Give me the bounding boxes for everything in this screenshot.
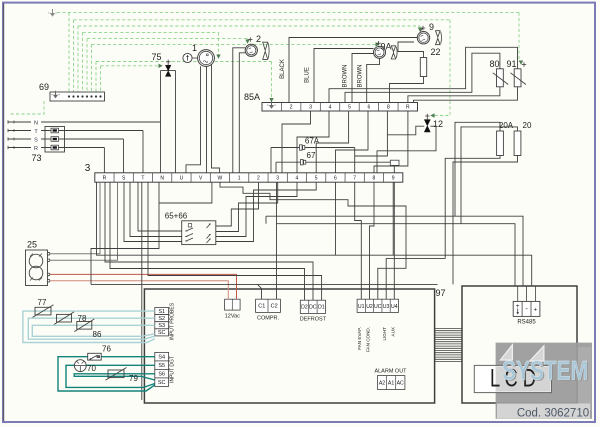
pressure switch 70 — [74, 360, 86, 372]
wire S down to strip 3 — [123, 139, 125, 173]
svg-text:RS485: RS485 — [517, 320, 536, 326]
svg-text:BLUE: BLUE — [305, 67, 311, 83]
wire 91 bottom to strip 85A cell R — [414, 87, 518, 103]
svg-text:8: 8 — [387, 105, 390, 111]
green ground bus horizontal to motor 1 — [83, 31, 219, 33]
wire 20A bottom — [445, 156, 500, 259]
wire valve 12 right to strip 3 cell 8 — [377, 126, 436, 173]
bus wire to display box upper — [266, 216, 523, 286]
wire 80 bottom to strip 85A cell R — [408, 87, 500, 103]
motor 1 thermal protector — [183, 53, 192, 62]
wire RS485 shield to box edge — [534, 286, 536, 301]
svg-text:2: 2 — [256, 34, 261, 44]
svg-text:FAN EVAP.: FAN EVAP. — [357, 327, 362, 350]
wire RS485 minus to box edge — [526, 286, 528, 301]
svg-text:67A: 67A — [305, 137, 320, 146]
RS485 terminal block — [513, 301, 540, 316]
green ground bus stub to fan 2 plus — [247, 39, 249, 41]
svg-text:91: 91 — [506, 59, 516, 69]
svg-text:FAN COND.: FAN COND. — [366, 327, 371, 352]
svg-text:3: 3 — [276, 176, 279, 182]
fan motor 2 — [245, 44, 257, 56]
connector on U4 aux line — [390, 160, 399, 165]
relay box 65+66 — [182, 221, 216, 245]
svg-text:S: S — [34, 137, 38, 143]
staircase bus wire below strip 3 — [220, 182, 406, 216]
wire BLUE motor 9A to strip 85A cell 3 — [314, 49, 374, 103]
svg-text:LIGHT: LIGHT — [382, 327, 387, 341]
svg-text:12: 12 — [433, 119, 443, 129]
svg-text:BROWN: BROWN — [358, 65, 364, 88]
svg-text:3: 3 — [85, 163, 91, 174]
wire down left of controller — [141, 182, 143, 400]
wire UC riser — [378, 216, 406, 299]
svg-text:R: R — [34, 146, 38, 152]
svg-text:70: 70 — [87, 364, 96, 373]
probe 77 — [35, 307, 51, 315]
controller box 97 — [144, 289, 434, 403]
green ground bus vertical to valve 12 — [433, 20, 450, 116]
wire 67 to strip 3 cell 3 right — [275, 162, 277, 173]
svg-text:U4: U4 — [391, 304, 398, 310]
wire 20 top — [461, 127, 518, 224]
svg-text:2: 2 — [290, 105, 293, 111]
probe 78 — [57, 314, 72, 322]
svg-text:S4: S4 — [158, 355, 165, 361]
wire motor 1 to strip 3 U — [186, 66, 201, 173]
wire U3 riser to resistor 20A bottom — [386, 259, 445, 300]
svg-text:U2: U2 — [366, 304, 373, 310]
terminal strip 85A — [262, 103, 418, 112]
wire 85A cell 4 to strip 3 cell 4 jog — [297, 111, 329, 173]
long bus wire to RS485 — [97, 182, 532, 286]
svg-text:N: N — [160, 176, 164, 182]
probe 86 — [77, 322, 92, 330]
wire U1 to strip 3 cell 7 — [355, 182, 362, 299]
digital input terminals S4 S5 S6 SC — [155, 352, 169, 361]
svg-text:AUX: AUX — [391, 327, 396, 336]
wire motor 2 upper to strip 3 cell 1 — [233, 48, 245, 173]
svg-text:U3: U3 — [383, 304, 390, 310]
green ground bus horizontal to fan 9A — [92, 43, 378, 45]
mains line R — [8, 147, 104, 149]
wire strip 3 T to relay pin 1 — [138, 182, 182, 231]
probe wire S2 loop — [28, 318, 155, 339]
fan 9A blades — [391, 46, 395, 52]
long bus wire above controller — [91, 283, 438, 285]
terminal strip 3 — [95, 173, 403, 182]
connector 67 line — [276, 161, 390, 163]
mains line T — [8, 130, 143, 132]
input probe terminals S1 S2 S3 SC — [155, 308, 169, 315]
transformer 25 — [26, 250, 48, 286]
wire bus junction 266 — [265, 216, 267, 224]
svg-text:80: 80 — [489, 59, 499, 69]
fan 2 ground plus mark — [248, 39, 252, 41]
mains line N — [8, 121, 161, 123]
motor 1 ground arrow — [216, 55, 220, 59]
probe 91 ground plus mark — [522, 64, 526, 66]
red wire transformer secondary 2 to 12Vac — [50, 281, 228, 300]
wire 67A to strip 3 cell 3 — [270, 148, 272, 173]
wire D1 terminal to strip 3 T — [148, 182, 322, 300]
svg-text:SC: SC — [158, 380, 166, 386]
ribbon cable controller to display — [435, 328, 462, 330]
svg-text:67: 67 — [307, 151, 316, 160]
svg-text:W: W — [218, 176, 223, 182]
fan 9 blades — [436, 31, 441, 37]
LCD display — [474, 365, 551, 392]
wire strip3 N up to fuse 75 — [160, 71, 162, 173]
svg-text:4: 4 — [329, 105, 332, 111]
digital input wire S5 loop — [66, 365, 155, 387]
wire strip 3 S to relay pin 3 — [124, 182, 182, 241]
red wire transformer secondary 1 to 12Vac — [50, 274, 237, 299]
svg-text:2: 2 — [257, 176, 260, 182]
wire 91 top loop from strip 85A cell 4 — [329, 47, 518, 102]
svg-text:76: 76 — [102, 345, 111, 354]
svg-text:DC: DC — [309, 305, 317, 311]
svg-text:85A: 85A — [244, 92, 260, 102]
svg-text:25: 25 — [27, 240, 37, 250]
relay 65+66 internal contacts — [188, 224, 191, 227]
display unit box — [462, 286, 577, 403]
terminals U1 U2 UC U3 U4 — [357, 299, 398, 312]
svg-text:97: 97 — [435, 288, 445, 298]
wire protector to motor 1 — [192, 57, 198, 59]
terminal 12Vac — [225, 299, 241, 310]
wire strip 3 W to N bus — [159, 182, 212, 203]
ground symbol in strip 69 — [55, 91, 57, 97]
probe 80 — [497, 69, 504, 87]
svg-text:9A: 9A — [380, 42, 391, 52]
resistor 22 — [420, 58, 426, 77]
wire 85A cell 3 to strip 3 cell 3 jog — [282, 111, 311, 173]
svg-text:77: 77 — [38, 298, 47, 307]
svg-text:INPUT PROBES: INPUT PROBES — [170, 302, 176, 340]
svg-text:COMPR.: COMPR. — [257, 316, 279, 322]
wire valve 12 left staircase to 85A cell 7 line — [387, 126, 424, 135]
green ground bus horizontal to probe 91 — [57, 12, 519, 14]
wire transformer primary 2 to strip 3 S — [50, 182, 118, 260]
svg-text:ALARM OUT: ALARM OUT — [374, 369, 407, 375]
wire aux connector to strip 3 cell 9 — [393, 165, 395, 172]
strip 69 terminal dots — [68, 95, 70, 97]
svg-text:DEFROST: DEFROST — [300, 317, 327, 323]
green ground bus horizontal to terminal 85A ground — [96, 61, 272, 63]
svg-text:65+66: 65+66 — [165, 212, 188, 221]
fuse 73 on line S — [51, 137, 59, 142]
door switch 76 — [88, 353, 102, 360]
wire relay out to strip 3 cell 5 — [216, 182, 316, 241]
ground symbol top-left — [52, 9, 54, 15]
wire 85A cell R to strip 3 cell 8 jog — [374, 111, 408, 173]
svg-text:R: R — [103, 176, 107, 182]
svg-text:S1: S1 — [158, 309, 165, 315]
probe 91 — [514, 69, 521, 87]
wire R down to strip 3 — [103, 148, 105, 173]
fan 9A ground plus mark — [376, 42, 380, 44]
resistor 20A — [497, 131, 504, 156]
compressor motor 1 — [198, 50, 215, 67]
svg-text:INPUT DGT: INPUT DGT — [170, 356, 176, 383]
svg-text:79: 79 — [129, 374, 138, 383]
wire T down to strip 3 — [142, 131, 144, 173]
inner left dark frame line — [3, 3, 5, 421]
connector 67A symbol — [300, 145, 303, 150]
connector 67 symbol — [301, 160, 304, 165]
wire 85A cell 7 to strip 3 cell 7 jog — [355, 111, 388, 156]
fan 2 blades — [263, 42, 268, 50]
connector 67A line — [271, 147, 355, 149]
mains line S — [8, 138, 124, 140]
svg-text:12Vac: 12Vac — [225, 314, 240, 320]
wire BROWN motor 9A to strip 85A cell 5 — [352, 54, 374, 103]
terminal strip 69 — [50, 92, 105, 101]
fuse 75 ground plus mark — [166, 61, 170, 63]
svg-text:6: 6 — [334, 176, 337, 182]
svg-text:S2: S2 — [158, 316, 165, 322]
svg-text:BLACK: BLACK — [280, 59, 286, 79]
svg-text:1: 1 — [192, 43, 197, 53]
svg-text:N: N — [34, 120, 38, 126]
svg-text:C2: C2 — [271, 304, 278, 310]
valve 12 ground plus mark — [425, 115, 429, 117]
svg-text:4: 4 — [296, 176, 299, 182]
fan motor 9 — [417, 32, 429, 44]
digital input wire S6 loop — [74, 374, 155, 380]
terminal DEFROST D2 DC D1 — [300, 300, 325, 313]
wire fuse 75 down to strip 3 U — [175, 71, 177, 173]
fuse 73 on line R — [51, 145, 59, 150]
wire D2 terminal to strip 3 R — [110, 182, 305, 300]
green ground bus verticals down to strip 69 — [68, 13, 70, 92]
wire BLACK motor 9 to strip 85A cell 2 — [289, 38, 417, 103]
wire U4 riser to strip 3 cell 9 — [393, 182, 395, 299]
wire strip 3 N down-left bus — [91, 182, 159, 284]
svg-text:S5: S5 — [158, 363, 165, 369]
green ground bus horizontal to valve 12 — [74, 19, 451, 21]
svg-text:8: 8 — [373, 176, 376, 182]
svg-text:R: R — [406, 105, 410, 111]
svg-text:86: 86 — [93, 330, 102, 339]
svg-text:A2: A2 — [379, 381, 385, 387]
svg-text:73: 73 — [31, 153, 41, 163]
wire compressor C1 riser — [258, 284, 262, 299]
svg-text:7: 7 — [353, 176, 356, 182]
svg-text:D1: D1 — [318, 305, 325, 311]
wire transformer primary 1 to strip 3 R — [50, 182, 100, 254]
svg-text:3: 3 — [309, 105, 312, 111]
svg-text:Cod. 3062710: Cod. 3062710 — [517, 408, 589, 420]
green ground bus stub to fan 9 plus — [419, 26, 421, 29]
svg-text:1: 1 — [238, 176, 241, 182]
wire relay out to strip 3 cell 2 — [216, 182, 259, 226]
wire 20A top — [455, 122, 500, 216]
green ground wire below strip 69 — [10, 101, 44, 114]
svg-text:9: 9 — [392, 176, 395, 182]
svg-text:75: 75 — [151, 52, 161, 62]
solenoid valve 12 — [424, 120, 430, 132]
fan 9 ground plus mark — [421, 27, 425, 29]
wire DC terminal to strip 3 R — [105, 182, 313, 300]
resistor 20 — [514, 131, 521, 156]
wire 85A cell 5 to strip 3 cell 5 jog — [316, 111, 348, 173]
svg-text:S3: S3 — [158, 323, 165, 329]
green ground bus stub to motor 1 plus — [218, 32, 220, 54]
wire resistor 22 to strip 85A cell 7 — [390, 77, 424, 103]
svg-text:69: 69 — [39, 82, 49, 92]
svg-text:U1: U1 — [358, 304, 365, 310]
wire strip 3 cell 6 junction — [335, 182, 337, 255]
wire BROWN motor 9A bottom to strip 85A cell 6 — [367, 59, 380, 103]
svg-text:20A: 20A — [499, 121, 514, 130]
wire 20 bottom — [453, 156, 518, 285]
fuse box 73 — [45, 127, 65, 153]
svg-text:S6: S6 — [158, 372, 165, 378]
wire RS485 plus to box edge — [517, 286, 519, 301]
probe 79 — [108, 370, 124, 378]
wire motor 2 lower to strip 3 cell 1 — [239, 53, 245, 173]
svg-text:D2: D2 — [301, 305, 308, 311]
wire 85A cell 6 to strip 3 cell 6 jog — [336, 111, 369, 173]
svg-text:SC: SC — [158, 330, 166, 336]
wire relay out to strip 3 cell 3 via riser — [216, 182, 278, 231]
green ground bus vertical to terminal 85A ground — [271, 62, 273, 101]
line start ticks — [7, 120, 9, 124]
svg-text:C1: C1 — [258, 304, 265, 310]
wire motor 9 to resistor 22 — [398, 42, 424, 58]
watermark overlay box — [496, 343, 592, 419]
probe wire S3 loop — [32, 325, 155, 336]
svg-text:22: 22 — [431, 47, 441, 57]
svg-text:9: 9 — [429, 22, 434, 32]
svg-text:5: 5 — [315, 176, 318, 182]
digital input wire S4 loop — [58, 357, 155, 391]
svg-text:5: 5 — [348, 105, 351, 111]
wire U2 to strip 3 cell 8 — [370, 182, 375, 299]
svg-text:AC: AC — [397, 381, 404, 387]
svg-text:A1: A1 — [388, 381, 394, 387]
svg-text:T: T — [141, 176, 144, 182]
green ground bus vertical to probe 91 plus — [518, 13, 520, 62]
wire strip 3 S to relay pin 2 — [130, 182, 182, 236]
wire strip 3 cell 9 junction — [392, 182, 394, 255]
svg-text:U: U — [180, 176, 184, 182]
svg-text:BROWN: BROWN — [343, 65, 349, 88]
wire 80 top loop from strip 85A cell 5 — [345, 53, 500, 102]
svg-text:20: 20 — [523, 121, 532, 130]
svg-text:+: + — [534, 308, 538, 314]
wire motor 1 to strip 3 W — [212, 65, 220, 173]
wire motor 1 to strip 3 V — [206, 66, 208, 172]
terminal COMPR C1 C2 — [256, 299, 281, 312]
green ground bus horizontal to fan 2 — [87, 38, 248, 40]
wire 67A line down to strip 3 cell 7 — [354, 148, 356, 173]
fan motor 9A — [374, 46, 386, 58]
fuse 73 on line T — [51, 128, 59, 133]
green ground bus horizontal to fuse 75 — [101, 65, 161, 67]
svg-text:UC: UC — [374, 304, 382, 310]
green ground bus horizontal to fan 9 — [78, 25, 420, 27]
wire relay out to strip 3 cell 4 — [216, 182, 297, 236]
probe wire S1 loop — [23, 311, 155, 342]
svg-text:SYSTEM: SYSTEM — [502, 356, 588, 386]
bus wire C2 horizontal to display box — [277, 224, 516, 286]
wire compressor C2 to display bus — [276, 182, 278, 299]
ground symbol in strip 85A — [271, 101, 273, 107]
svg-text:6: 6 — [368, 105, 371, 111]
fuse 75 — [161, 70, 176, 72]
